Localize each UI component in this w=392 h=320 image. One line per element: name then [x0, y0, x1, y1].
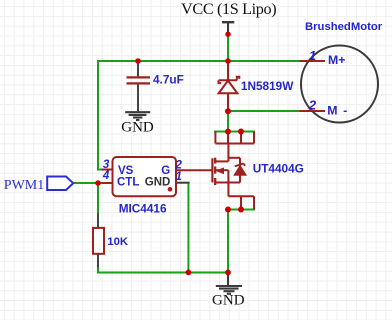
capacitor C1 4.7uF — [127, 61, 151, 111]
svg-text:4: 4 — [102, 170, 110, 182]
svg-text:CTL: CTL — [117, 177, 139, 189]
junction: PWM1 / CTL / R1 node — [95, 180, 101, 186]
svg-text:VCC (1S Lipo): VCC (1S Lipo) — [181, 0, 276, 18]
svg-text:UT4404G: UT4404G — [253, 162, 304, 176]
motor M1 circle — [301, 46, 378, 123]
svg-text:PWM1: PWM1 — [4, 178, 44, 193]
wire: bottom ground rail — [98, 267, 228, 273]
ground GND (capacitor) — [125, 112, 150, 120]
svg-text:GND: GND — [145, 177, 171, 189]
junction: C1 top on VCC rail — [135, 58, 141, 64]
svg-text:4.7uF: 4.7uF — [153, 73, 184, 87]
power flag VCC — [222, 22, 234, 32]
transistor Q1 UT4404G — [212, 144, 228, 197]
svg-text:2: 2 — [174, 159, 182, 171]
resistor R1 — [93, 214, 104, 268]
motor pin 1 — [300, 60, 326, 62]
wire: drain bundle tie — [214, 131, 255, 133]
junction: VCC flag pin end — [225, 32, 230, 37]
wire: CTL node to R1 — [97, 183, 99, 214]
wire: VCC flag drop — [227, 34, 229, 61]
svg-text:1: 1 — [309, 48, 316, 63]
wire: M- net horizontal — [228, 110, 300, 112]
svg-text:10K: 10K — [107, 236, 129, 248]
net flag PWM1 — [47, 177, 73, 191]
junction: drain bundle right — [238, 129, 244, 135]
svg-text:1N5819W: 1N5819W — [241, 79, 294, 93]
junction: source bundle left — [225, 207, 231, 213]
junction: source bundle right — [238, 207, 244, 213]
transistor Q1 body diode — [228, 158, 245, 183]
IC pin 4 stub — [102, 182, 113, 184]
junction: IC GND wire on ground rail — [186, 270, 192, 276]
transistor Q1 source pin bundle — [228, 196, 254, 209]
svg-text:2: 2 — [308, 98, 317, 113]
wire: IC GND pin to ground rail — [176, 182, 190, 184]
diode D1 1N5819W (schottky) — [219, 61, 240, 111]
svg-text:M -: M - — [327, 103, 348, 117]
svg-text:VS: VS — [118, 165, 134, 177]
wire: PWM1 to CTL — [74, 182, 104, 184]
junction: ground rail at GND flag — [225, 270, 231, 276]
svg-text:GND: GND — [121, 120, 154, 136]
junction: VCC flag on top rail — [225, 58, 231, 64]
IC pin 3 stub — [102, 169, 113, 171]
junction: drain bundle left — [225, 129, 231, 135]
op IC U1 MIC4416 body — [113, 157, 177, 196]
IC pin 1 dot — [168, 187, 173, 192]
transistor Q1 drain pin bundle — [215, 132, 254, 144]
svg-text:M+: M+ — [328, 53, 345, 67]
junction: D1 anode / M- node — [225, 108, 231, 114]
svg-text:BrushedMotor: BrushedMotor — [305, 21, 383, 33]
svg-text:G: G — [161, 165, 170, 177]
svg-text:MIC4416: MIC4416 — [119, 202, 167, 216]
motor pin 2 — [300, 110, 326, 112]
svg-text:GND: GND — [212, 293, 245, 309]
transistor Q1 body arrow — [215, 167, 224, 174]
wire: source to ground — [227, 210, 229, 273]
svg-text:1: 1 — [175, 171, 181, 183]
ground GND (bottom) — [216, 275, 242, 294]
wire: source bundle tie — [228, 209, 255, 211]
wire: M- to drain — [227, 111, 229, 132]
wire: VCC top rail — [98, 61, 300, 170]
IC pin 2 stub to gate — [176, 169, 212, 171]
